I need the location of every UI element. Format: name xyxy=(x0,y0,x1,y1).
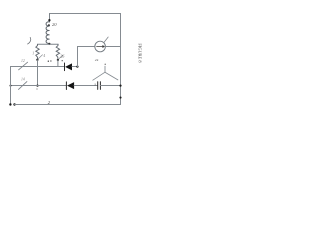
svg-text:26: 26 xyxy=(60,54,65,59)
wire bar below coil xyxy=(38,43,59,45)
R1 arrow tick xyxy=(38,55,42,59)
node dot right vertical lower xyxy=(119,97,121,99)
wire line B left xyxy=(11,85,67,87)
node dot top of coil xyxy=(48,19,50,21)
leader fork left diagonal xyxy=(93,72,105,80)
svg-text:24: 24 xyxy=(95,58,99,62)
svg-text:20: 20 xyxy=(52,22,57,27)
wire bottom rail xyxy=(15,104,121,106)
svg-text:14: 14 xyxy=(21,78,25,82)
resistor R2 xyxy=(56,44,59,58)
battery terminal dot left xyxy=(9,103,11,105)
node dot line B tee xyxy=(10,85,12,87)
meter M circle xyxy=(95,41,106,52)
resistor R1 xyxy=(36,44,39,58)
R2 arrow tick xyxy=(59,55,63,59)
wire line A xyxy=(11,66,65,68)
node dot coil upper loop xyxy=(48,24,50,26)
inductor L 20 coil xyxy=(46,22,49,44)
svg-text:FIGURE 8: FIGURE 8 xyxy=(138,43,143,63)
wire top rail xyxy=(50,13,121,15)
diode D2 triangle xyxy=(67,82,74,89)
diode D2 cathode bar xyxy=(65,82,67,90)
node dot under R1 xyxy=(36,59,38,61)
leader fork right diagonal xyxy=(105,72,118,80)
wire capacitor to right vertical xyxy=(100,85,120,87)
label speck below line B xyxy=(36,88,37,89)
svg-text:1: 1 xyxy=(32,52,34,56)
node dot under R2 xyxy=(57,59,59,61)
node dot R1 on line B xyxy=(36,85,38,87)
wire R1 down to line B xyxy=(37,60,39,86)
wire right vertical xyxy=(120,14,122,105)
inductor L 20 lead xyxy=(49,14,51,23)
wire meter to right vertical xyxy=(105,46,120,48)
node dot line B right xyxy=(119,85,121,87)
svg-text:12: 12 xyxy=(21,59,25,63)
leader fork vertical xyxy=(104,66,106,72)
wire D1 to node xyxy=(72,66,78,68)
capacitor C plate right xyxy=(99,82,101,90)
node dot coil bottom xyxy=(48,43,50,45)
wire D2 to capacitor xyxy=(74,85,98,87)
label 10 leader curve xyxy=(28,37,31,44)
node dot line A right xyxy=(76,65,78,67)
svg-text:4: 4 xyxy=(43,54,45,58)
label above fork xyxy=(105,64,106,65)
wire node up to meter level xyxy=(77,47,79,67)
switch S1 blade xyxy=(19,62,28,70)
battery terminal dot right xyxy=(13,103,15,105)
wire left vertical xyxy=(10,67,12,105)
specks on line A xyxy=(48,61,49,62)
diode D1 triangle xyxy=(65,63,72,70)
diode D1 cathode bar xyxy=(64,63,66,71)
switch S2 blade xyxy=(19,82,27,90)
meter leader diagonal xyxy=(104,37,109,43)
capacitor C plate left xyxy=(97,82,99,90)
wire R2 to line A xyxy=(57,60,59,67)
meter arrow xyxy=(97,46,103,48)
wire to meter xyxy=(78,46,95,48)
